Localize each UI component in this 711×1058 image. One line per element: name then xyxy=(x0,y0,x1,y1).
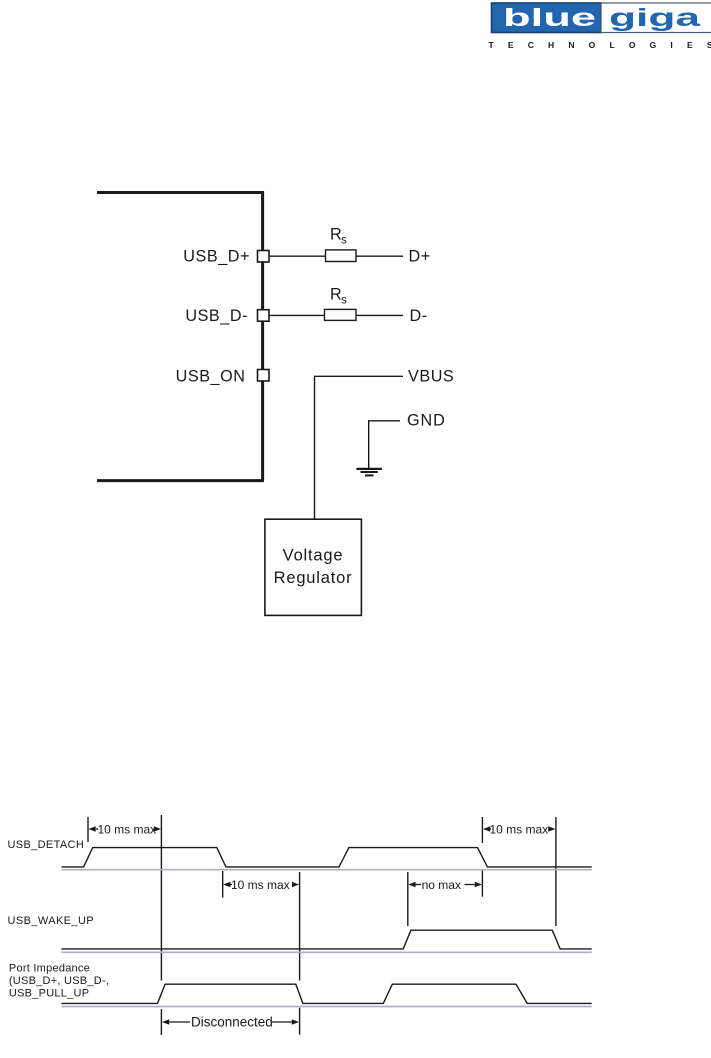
svg-text:GND: GND xyxy=(407,412,446,430)
annotation no max xyxy=(408,878,482,892)
svg-text:10 ms max: 10 ms max xyxy=(231,878,290,892)
timing: reference line B xyxy=(299,872,301,1035)
timing: marker at wake rise xyxy=(407,872,409,926)
baseline Port Impedance xyxy=(62,1006,592,1008)
waveform Port Impedance xyxy=(62,984,592,1003)
wire VBUS to voltage regulator xyxy=(315,376,404,519)
pin USB_D- xyxy=(258,310,270,322)
pin USB_D+ xyxy=(258,251,270,263)
svg-text:(USB_D+, USB_D-,: (USB_D+, USB_D-, xyxy=(9,975,109,987)
resistor R2 (Rs) xyxy=(325,309,357,320)
svg-text:Voltage: Voltage xyxy=(283,547,344,565)
svg-text:Disconnected: Disconnected xyxy=(191,1015,273,1030)
annotation 10 ms max (first) xyxy=(89,823,161,837)
wire pin USB_D+ to R1 xyxy=(269,255,326,257)
svg-text:s: s xyxy=(341,295,347,307)
ground symbol xyxy=(356,469,382,476)
voltage regulator U1 xyxy=(265,519,362,615)
svg-text:s: s xyxy=(341,235,347,247)
label Rs for R2 xyxy=(330,286,347,307)
svg-text:10 ms max: 10 ms max xyxy=(490,823,549,837)
svg-text:VBUS: VBUS xyxy=(408,367,454,385)
baseline USB_DETACH xyxy=(62,869,592,871)
wire GND xyxy=(369,421,400,469)
timing: reference line C xyxy=(555,817,557,926)
svg-text:R: R xyxy=(330,286,342,304)
svg-text:USB_DETACH: USB_DETACH xyxy=(8,839,85,851)
waveform USB_WAKE_UP xyxy=(62,930,592,949)
wire R1 to D+ xyxy=(356,255,403,257)
svg-text:D+: D+ xyxy=(409,248,431,266)
annotation 10 ms max (third) xyxy=(483,823,555,837)
annotation Disconnected xyxy=(162,1015,299,1030)
wire pin USB_D- to R2 xyxy=(269,314,325,316)
timing: marker at first fall xyxy=(222,871,224,898)
timing: marker at second fall xyxy=(481,817,483,897)
svg-text:USB_ON: USB_ON xyxy=(176,367,246,385)
pin USB_ON xyxy=(258,370,270,382)
svg-text:10 ms max: 10 ms max xyxy=(98,823,157,837)
svg-text:D-: D- xyxy=(410,307,428,325)
signal label Port Impedance xyxy=(9,962,109,999)
svg-text:USB_PULL_UP: USB_PULL_UP xyxy=(9,987,89,999)
timing: marker at first rise xyxy=(87,817,89,842)
svg-text:USB_D-: USB_D- xyxy=(185,307,248,325)
bluegiga logo giga box xyxy=(601,3,711,33)
bluegiga logo blue box xyxy=(492,3,602,33)
resistor R1 (Rs) xyxy=(326,250,357,262)
label Rs for R1 xyxy=(330,226,347,247)
svg-text:giga: giga xyxy=(609,4,702,32)
svg-text:USB_WAKE_UP: USB_WAKE_UP xyxy=(8,915,95,927)
svg-text:no max: no max xyxy=(422,878,461,892)
wire R2 to D- xyxy=(356,314,403,316)
waveform USB_DETACH xyxy=(62,848,592,867)
svg-text:TECHNOLOGIES: TECHNOLOGIES xyxy=(489,40,711,50)
svg-text:Regulator: Regulator xyxy=(274,569,353,587)
timing: reference line A xyxy=(160,815,162,1035)
svg-text:USB_D+: USB_D+ xyxy=(183,248,250,266)
svg-text:R: R xyxy=(330,226,342,244)
svg-text:Port Impedance: Port Impedance xyxy=(9,962,90,974)
baseline USB_WAKE_UP xyxy=(62,951,592,953)
svg-text:blue: blue xyxy=(503,4,596,32)
module outline bracket xyxy=(97,191,264,481)
annotation 10 ms max (second) xyxy=(223,878,299,892)
